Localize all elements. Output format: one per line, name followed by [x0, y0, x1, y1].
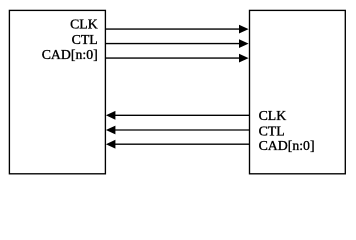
svg-text:CLK: CLK [259, 108, 287, 123]
wire CTL right-to-left [106, 126, 250, 135]
wire CLK left-to-right [105, 25, 248, 34]
pin label CTL (right block output) [259, 123, 285, 138]
right device block [250, 10, 346, 173]
wire CAD[n:0] left-to-right [105, 54, 248, 63]
wire CTL left-to-right [105, 39, 248, 48]
svg-text:CTL: CTL [259, 123, 285, 138]
svg-text:CAD[n:0]: CAD[n:0] [259, 138, 315, 153]
pin label CAD[n:0] (left block output) [42, 47, 98, 62]
left device block [9, 10, 105, 173]
pin label CLK (right block output) [259, 108, 287, 123]
pin label CAD[n:0] (right block output) [259, 138, 315, 153]
wire CLK right-to-left [106, 111, 250, 120]
svg-text:CAD[n:0]: CAD[n:0] [42, 47, 98, 62]
svg-text:CTL: CTL [72, 32, 98, 47]
pin label CTL (left block output) [72, 32, 98, 47]
svg-text:CLK: CLK [70, 17, 98, 32]
wire CAD[n:0] right-to-left [106, 140, 250, 149]
pin label CLK (left block output) [70, 17, 98, 32]
